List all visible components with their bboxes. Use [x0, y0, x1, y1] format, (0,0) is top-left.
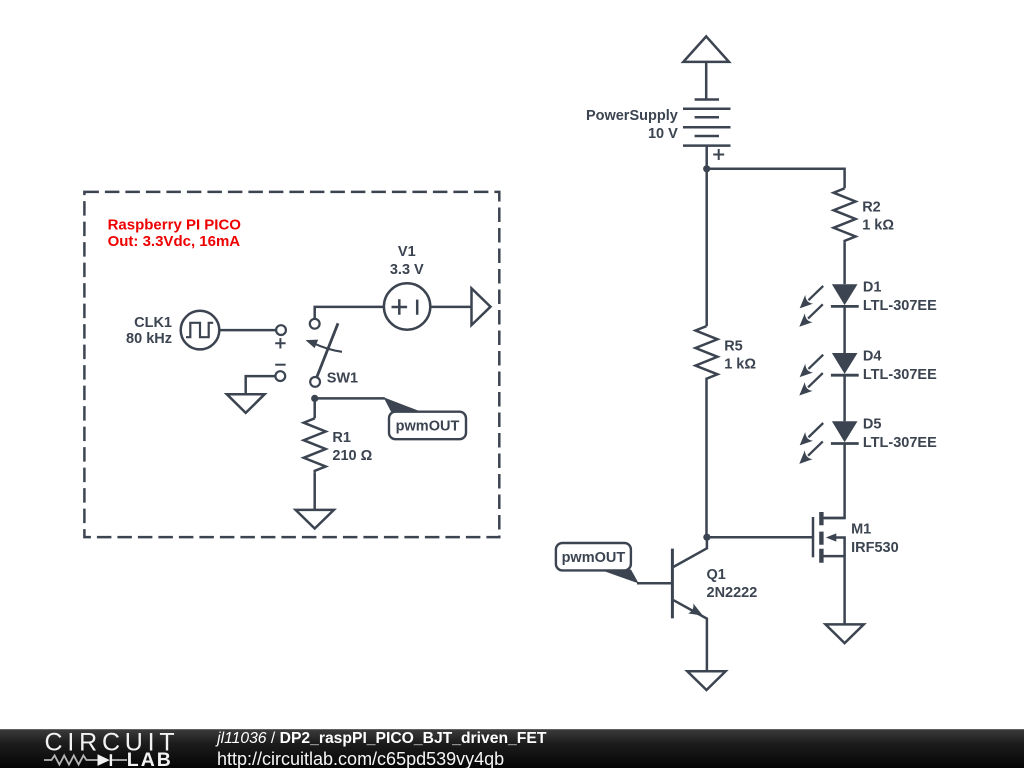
wire D5 to M1 drain — [824, 444, 844, 519]
svg-text:Raspberry PI PICO: Raspberry PI PICO — [108, 217, 242, 234]
svg-text:Q1: Q1 — [707, 567, 726, 583]
svg-text:M1: M1 — [851, 522, 871, 538]
svg-text:1 kΩ: 1 kΩ — [862, 218, 894, 234]
svg-text:10 V: 10 V — [648, 126, 678, 142]
wire battery to node — [705, 146, 708, 169]
channel bars — [819, 512, 823, 563]
svg-text:D1: D1 — [863, 280, 882, 296]
battery PowerSupply — [683, 100, 731, 146]
flag pwmOUT (left) box — [389, 412, 466, 440]
terminal bottom of SW1 — [310, 377, 320, 387]
svg-text:D4: D4 — [863, 348, 882, 364]
wire - terminal to ground — [246, 376, 276, 394]
svg-text:pwmOUT: pwmOUT — [396, 419, 460, 435]
wire D1 to D4 — [843, 306, 846, 353]
wire R5 to node C — [705, 381, 708, 538]
LED D1 — [795, 282, 858, 331]
LED D4 — [795, 350, 858, 399]
footer bar — [0, 729, 1024, 768]
plus sign battery — [713, 149, 724, 160]
svg-text:R2: R2 — [862, 200, 881, 216]
ground (R1) — [296, 510, 334, 529]
svg-text:SW1: SW1 — [327, 371, 358, 387]
wire D4 to D5 — [843, 375, 846, 421]
flag pwmOUT (left) swoosh — [384, 397, 422, 411]
svg-text:LTL-307EE: LTL-307EE — [863, 367, 937, 383]
svg-text:R1: R1 — [332, 430, 351, 446]
svg-text:PowerSupply: PowerSupply — [586, 108, 678, 124]
logo doodle wire+resistor — [44, 755, 98, 764]
svg-text:LAB: LAB — [127, 749, 173, 768]
switch blade — [317, 323, 338, 377]
svg-text:210 Ω: 210 Ω — [332, 448, 372, 464]
wire CLK1 to + terminal — [219, 329, 276, 332]
body arrow — [826, 533, 837, 541]
source connection — [824, 556, 845, 624]
clock source CLK1 — [181, 311, 220, 350]
switch action arc — [313, 343, 343, 352]
wire flag to Q1 base — [637, 582, 671, 585]
node B (battery/R5/R2 junction) — [703, 165, 710, 172]
ground (M1) — [826, 624, 864, 643]
gate line — [812, 517, 815, 557]
wire node A to R1 — [313, 398, 316, 418]
drain connection — [824, 517, 845, 520]
wire V1 to output flag — [430, 306, 471, 309]
LED D5 — [795, 419, 858, 468]
svg-text:Out: 3.3Vdc, 16mA: Out: 3.3Vdc, 16mA — [108, 233, 241, 250]
svg-text:V1: V1 — [398, 244, 416, 260]
switch arrowhead — [304, 336, 318, 349]
VCC flag arrow — [683, 36, 729, 62]
resistor R1 — [304, 418, 326, 472]
mosfet M1 IRF530 — [813, 512, 845, 624]
output flag arrow — [472, 288, 491, 325]
svg-text:pwmOUT: pwmOUT — [562, 550, 626, 566]
node C (R5/Q1/M1 gate junction) — [703, 534, 710, 541]
svg-text:1 kΩ: 1 kΩ — [724, 356, 756, 372]
svg-text:LTL-307EE: LTL-307EE — [863, 435, 937, 451]
wire node B to R2 — [707, 169, 845, 189]
wire SW1 top to V1 — [315, 307, 384, 319]
wire R1 to ground — [313, 472, 316, 509]
flag pwmOUT (Q1) swoosh — [600, 570, 639, 584]
ground (CLK1) — [227, 394, 265, 413]
node A (SW1/R1/pwmOUT junction) — [311, 395, 318, 402]
svg-text:3.3 V: 3.3 V — [390, 262, 424, 278]
ground (Q1) — [687, 671, 725, 690]
plus sign — [275, 338, 285, 348]
wire node A to pwmOUT flag — [315, 397, 385, 400]
svg-text:CLK1: CLK1 — [134, 315, 172, 331]
svg-text:2N2222: 2N2222 — [707, 585, 758, 601]
resistor R2 — [834, 188, 856, 242]
resistor R5 — [705, 169, 708, 326]
svg-text:http://circuitlab.com/c65pd539: http://circuitlab.com/c65pd539vy4qb — [217, 749, 504, 768]
dashed box Raspberry PI PICO — [84, 192, 499, 537]
wire R2 to D1 — [843, 242, 846, 284]
logo diode — [98, 754, 110, 766]
svg-text:R5: R5 — [724, 338, 743, 354]
minus sign — [275, 364, 285, 366]
svg-text:80 kHz: 80 kHz — [126, 331, 172, 347]
svg-text:IRF530: IRF530 — [851, 540, 899, 556]
flag pwmOUT (Q1) box — [556, 543, 631, 570]
transistor Q1 2N2222 — [672, 537, 707, 671]
emitter arrowhead — [688, 603, 706, 620]
svg-text:jl11036 / DP2_raspPI_PICO_BJT_: jl11036 / DP2_raspPI_PICO_BJT_driven_FET — [215, 730, 547, 747]
terminal top of SW1 — [310, 319, 320, 329]
body wire — [836, 538, 845, 557]
voltage source V1 — [384, 283, 430, 329]
svg-text:D5: D5 — [863, 417, 882, 433]
terminal + of CLK1 — [276, 325, 286, 335]
svg-text:LTL-307EE: LTL-307EE — [863, 298, 937, 314]
collector — [674, 537, 707, 567]
switch SW1 — [304, 319, 342, 387]
terminal - of CLK1 — [275, 371, 285, 381]
emitter — [674, 600, 707, 671]
wire node C to M1 gate — [707, 536, 813, 539]
wire VCC to battery — [705, 62, 708, 100]
base bar — [671, 549, 674, 619]
